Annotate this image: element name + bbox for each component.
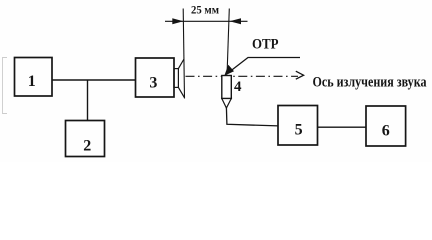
microphone 4 body xyxy=(222,76,232,99)
dimension extension line right xyxy=(227,9,229,71)
svg-text:Ось излучения звука: Ось излучения звука xyxy=(313,75,427,91)
svg-text:5: 5 xyxy=(295,122,303,139)
svg-text:25 мм: 25 мм xyxy=(191,5,219,17)
box 6 xyxy=(366,106,406,146)
svg-text:2: 2 xyxy=(83,138,91,155)
box 5 xyxy=(278,106,318,146)
svg-text:ОТР: ОТР xyxy=(252,37,279,53)
dimension line xyxy=(165,20,248,22)
OTP leader line xyxy=(226,58,300,75)
dimension arrowhead right xyxy=(230,18,242,24)
wire box5 to box6 xyxy=(318,126,367,128)
svg-text:6: 6 xyxy=(382,123,390,140)
box 3 xyxy=(136,58,175,97)
loudspeaker cone xyxy=(178,59,184,98)
loudspeaker driver xyxy=(174,69,178,88)
dimension extension line left xyxy=(183,9,184,99)
OTP leader arrowhead xyxy=(224,65,234,76)
sound axis arrowhead xyxy=(296,71,304,79)
wire box1 to box3 xyxy=(51,79,136,81)
svg-text:1: 1 xyxy=(28,73,36,90)
scan edge bracket artifact xyxy=(3,58,8,114)
svg-text:4: 4 xyxy=(234,79,242,95)
sound axis dash-dot line xyxy=(186,75,299,77)
box 1 xyxy=(15,58,53,97)
dimension arrowhead left xyxy=(172,18,183,24)
microphone tip xyxy=(222,99,232,109)
wire microphone to box5 xyxy=(226,107,278,126)
box 2 xyxy=(66,121,105,157)
wire junction drop to box2 xyxy=(87,80,89,121)
svg-text:3: 3 xyxy=(149,75,157,92)
